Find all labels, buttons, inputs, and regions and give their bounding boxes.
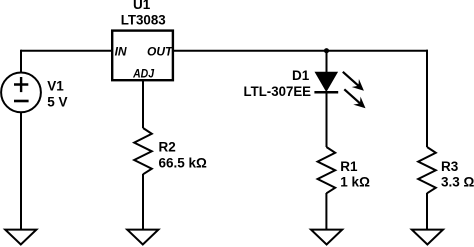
wire: OUT pin to right rail — [173, 50, 428, 52]
ground (R1) — [311, 230, 342, 245]
ground (R3) — [412, 230, 443, 245]
svg-text:U1: U1 — [133, 0, 151, 12]
ground (V1) — [5, 230, 36, 245]
wire: V1 top to IN pin, horizontal rail y=50 — [21, 50, 112, 52]
wire: ADJ to R2 — [142, 80, 144, 128]
svg-text:1 kΩ: 1 kΩ — [340, 175, 370, 190]
svg-text:ADJ: ADJ — [132, 67, 154, 81]
ground (R2) — [127, 230, 158, 245]
wire: R2 bottom — [142, 174, 144, 230]
LED D1 cathode bar — [314, 91, 338, 94]
wire: LED to R1 — [326, 92, 328, 147]
wire: R1 bottom — [325, 193, 327, 230]
svg-text:3.3 Ω: 3.3 Ω — [441, 175, 474, 190]
svg-text:LTL-307EE: LTL-307EE — [244, 84, 312, 99]
svg-text:5 V: 5 V — [47, 95, 67, 110]
wire: V1 top vertical — [20, 50, 22, 73]
svg-text:D1: D1 — [292, 68, 310, 83]
LED D1 anode triangle — [316, 73, 337, 91]
svg-text:OUT: OUT — [147, 45, 174, 59]
svg-text:R1: R1 — [340, 159, 358, 174]
resistor R2 — [134, 128, 152, 174]
resistor R3 — [418, 147, 436, 193]
svg-text:R3: R3 — [441, 159, 459, 174]
wire: right rail down to R3 — [426, 50, 428, 147]
resistor R1 — [318, 147, 336, 193]
voltage source V1 — [1, 73, 41, 113]
svg-text:66.5 kΩ: 66.5 kΩ — [159, 156, 208, 171]
wire: V1 bottom — [20, 112, 22, 230]
wire: junction to LED — [326, 51, 328, 73]
node: junction on output rail — [324, 48, 329, 53]
LED light arrow 2 — [344, 89, 360, 103]
LED light arrow 1 — [343, 72, 359, 86]
regulator U1 LT3083 — [112, 31, 173, 81]
svg-text:LT3083: LT3083 — [121, 13, 166, 28]
wire: R3 bottom — [426, 193, 428, 230]
svg-text:V1: V1 — [47, 79, 64, 94]
svg-text:R2: R2 — [159, 140, 176, 155]
svg-text:IN: IN — [115, 45, 127, 59]
